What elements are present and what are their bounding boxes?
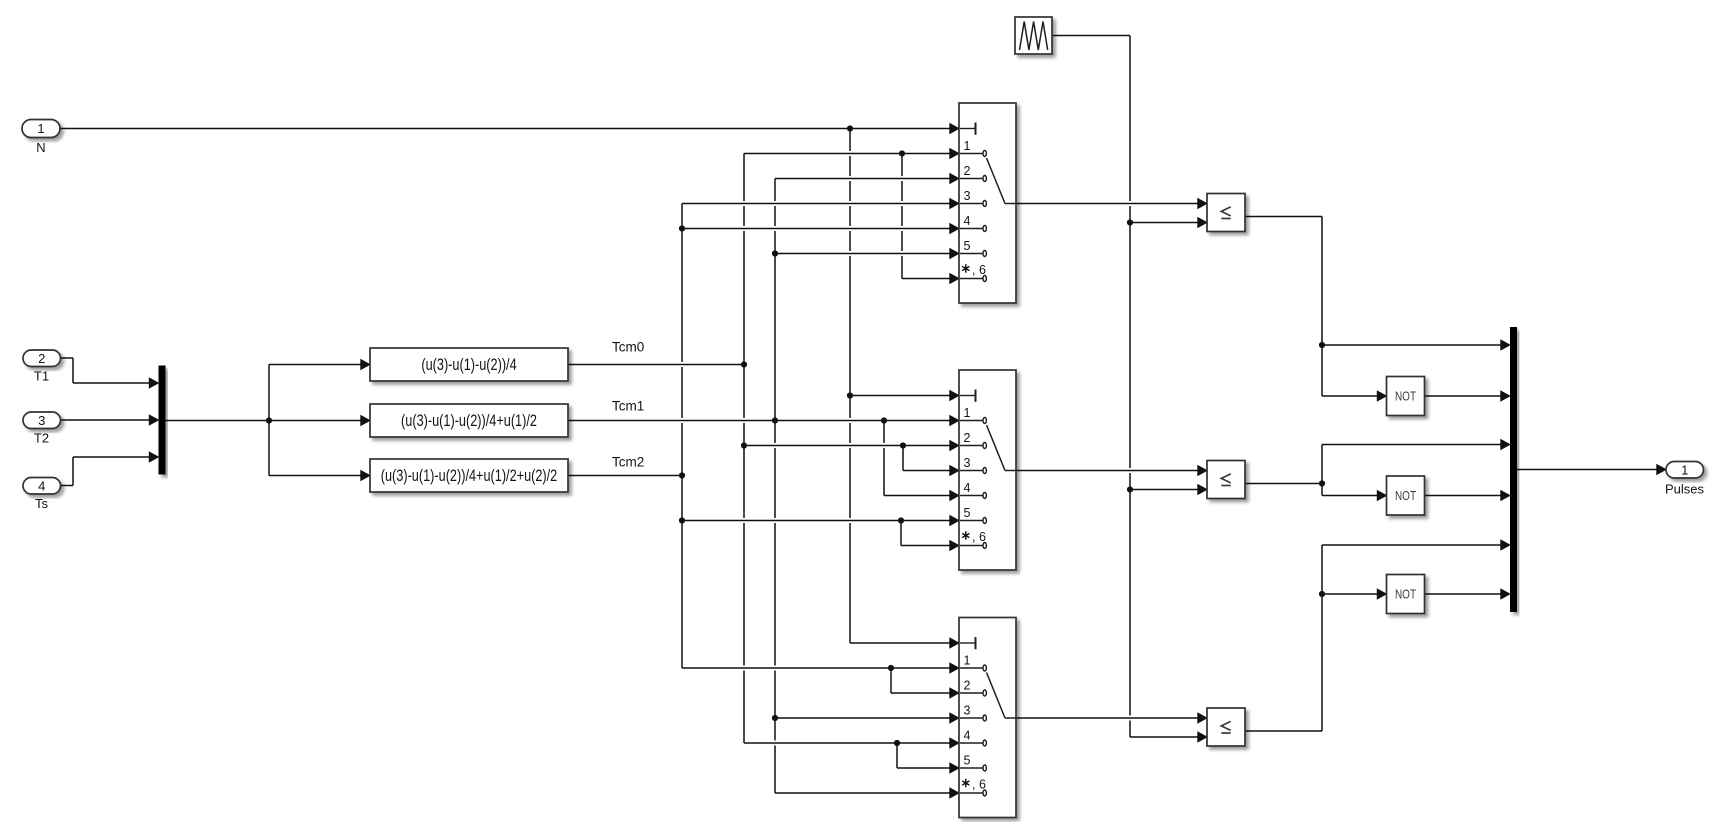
svg-text:2: 2 <box>38 351 45 366</box>
svg-text:NOT: NOT <box>1395 490 1416 503</box>
wire group2 to mux in3 <box>1322 439 1510 449</box>
svg-text:1: 1 <box>964 139 971 153</box>
wire LE3 output <box>1245 730 1322 732</box>
wire mux output to Fcn blocks <box>166 359 371 480</box>
wire Fcn1 output Tcm0 <box>568 364 744 366</box>
wire SW3 in6 <box>775 788 959 798</box>
svg-text:(u(3)-u(1)-u(2))/4: (u(3)-u(1)-u(2))/4 <box>421 357 516 375</box>
svg-text:, 6: , 6 <box>972 530 986 544</box>
svg-text:(u(3)-u(1)-u(2))/4+u(1)/2+u(2): (u(3)-u(1)-u(2))/4+u(1)/2+u(2)/2 <box>381 468 557 486</box>
wire vertical group3 x=1322 <box>1321 545 1323 731</box>
wire SW2 in4 <box>884 490 959 500</box>
wire NOT3 output to mux in6 <box>1425 589 1511 599</box>
wire vertical group1 x=1322 <box>1321 217 1323 397</box>
logical operator NOT3 <box>1387 575 1425 614</box>
wire branch SW3 in2 x=891 <box>890 668 892 693</box>
svg-text:4: 4 <box>38 478 45 493</box>
wire branch SW3 in5 x=897 <box>896 743 898 768</box>
wire NOT1 output to mux in2 <box>1425 391 1511 401</box>
wire branch SW2 in6 x=901 <box>900 521 902 546</box>
wire triangle branch to LE2 in2 <box>1130 484 1207 494</box>
wire N branch to SW2 control <box>850 390 959 400</box>
svg-text:N: N <box>36 140 45 155</box>
wire branch SW2 in4 x=884 <box>883 421 885 496</box>
wire LE2 output <box>1245 483 1322 485</box>
wire group2 to NOT2 <box>1322 490 1387 500</box>
wire branch SW2 in3 x=903 <box>902 446 904 471</box>
svg-text:2: 2 <box>964 679 971 693</box>
Fcn block Tcm0: (u(3)-u(1)-u(2))/4 <box>370 348 568 381</box>
label T1 <box>34 369 49 384</box>
wire vertical net Tcm0 x=744 <box>743 154 745 744</box>
wire triangle end to LE3 in2 <box>1130 732 1207 742</box>
wire vertical mux fan x=269 <box>268 365 270 476</box>
wire group1 to mux in1 <box>1322 340 1510 350</box>
inport 3 T2 <box>23 412 61 429</box>
multiport switch SW1 <box>959 103 1016 303</box>
Fcn block Tcm2: (u(3)-u(1)-u(2))/4+u(1)/2+u(2)/2 <box>370 459 568 492</box>
label Ts <box>35 496 49 511</box>
wire T2 to mux <box>60 415 159 425</box>
wire SW3 in2 <box>891 688 959 698</box>
wire vertical group2 x=1322 <box>1321 445 1323 496</box>
wire SW1 in4 <box>682 223 959 233</box>
multiport switch SW2 <box>959 370 1016 570</box>
wire group1 to NOT1 <box>1322 391 1387 401</box>
wire SW3 in3 <box>775 713 959 723</box>
svg-text:1: 1 <box>964 654 971 668</box>
svg-text:2: 2 <box>964 431 971 445</box>
svg-text:4: 4 <box>964 729 971 743</box>
svg-text:Tcm1: Tcm1 <box>612 399 644 414</box>
signal label Tcm2 <box>612 455 644 470</box>
wire SW2 in6 <box>901 540 959 550</box>
inport 4 Ts <box>23 478 61 495</box>
wire SW3 output to LE3 in1 <box>1016 713 1207 723</box>
logical operator NOT1 <box>1387 377 1425 416</box>
svg-text:3: 3 <box>38 413 45 428</box>
crossing gaps <box>681 151 1132 746</box>
wire SW1 in6 <box>902 273 959 283</box>
svg-text:3: 3 <box>964 704 971 718</box>
wire SW1 in2 <box>775 173 959 183</box>
mux Mux1 <box>159 366 166 475</box>
multiport switch SW3 <box>959 618 1016 818</box>
wire SW1 output to LE1 in1 <box>1016 198 1207 208</box>
wire N port to SW1 control <box>60 123 959 133</box>
svg-text:NOT: NOT <box>1395 391 1416 404</box>
wire elbow T1 x=73 <box>72 358 74 383</box>
svg-text:4: 4 <box>964 214 971 228</box>
wire Ts to mux <box>60 452 159 486</box>
wire group3 to mux in5 <box>1322 540 1510 550</box>
svg-text:1: 1 <box>964 406 971 420</box>
wire triangle branch to LE1 in2 <box>1130 217 1207 227</box>
wire SW2 in5 <box>682 515 959 525</box>
wire SW3 in1 <box>682 663 959 673</box>
svg-text:Tcm0: Tcm0 <box>612 340 644 355</box>
svg-text:5: 5 <box>964 754 971 768</box>
svg-text:5: 5 <box>964 506 971 520</box>
svg-text:(u(3)-u(1)-u(2))/4+u(1)/2: (u(3)-u(1)-u(2))/4+u(1)/2 <box>401 413 537 431</box>
svg-text:, 6: , 6 <box>972 778 986 792</box>
wire branch SW1 in6 x=902 <box>901 154 903 279</box>
wire SW1 in5 <box>775 248 959 258</box>
mux Mux2 <box>1510 327 1517 612</box>
relational operator LE3 (<=) <box>1207 708 1245 746</box>
repeating sequence block (triangle wave) <box>1015 17 1052 54</box>
outport 1 Pulses <box>1666 462 1704 479</box>
svg-text:Tcm2: Tcm2 <box>612 455 644 470</box>
wire SW2 output to LE2 in1 <box>1016 465 1207 475</box>
wire vertical carrier triangle x=1130 <box>1129 36 1131 738</box>
svg-text:T1: T1 <box>34 369 49 384</box>
svg-text:3: 3 <box>964 189 971 203</box>
svg-text:, 6: , 6 <box>972 263 986 277</box>
svg-text:NOT: NOT <box>1395 589 1416 602</box>
wire Fcn2 output Tcm1 to SW2 in1 <box>568 415 959 425</box>
wire SW2 in3 <box>903 465 959 475</box>
wire T1 to mux <box>60 358 159 388</box>
signal label Tcm0 <box>612 340 644 355</box>
wire SW1 in3 <box>682 198 959 208</box>
svg-text:2: 2 <box>964 164 971 178</box>
wire elbow Ts x=73 <box>72 457 74 486</box>
wire vertical net Tcm1 x=775 <box>774 179 776 794</box>
svg-text:3: 3 <box>964 456 971 470</box>
wire vertical net Tcm2 x=682 <box>681 204 683 669</box>
wire repeating sequence output <box>1052 35 1130 37</box>
wire SW1 in1 <box>744 148 959 158</box>
wire mux2 output to Pulses <box>1517 464 1666 474</box>
relational operator LE1 (<=) <box>1207 194 1245 232</box>
logical operator NOT2 <box>1387 476 1425 515</box>
svg-text:Pulses: Pulses <box>1665 482 1705 497</box>
label N <box>36 140 45 155</box>
inport 1 N <box>22 120 60 138</box>
svg-text:1: 1 <box>37 121 44 136</box>
signal label Tcm1 <box>612 399 644 414</box>
wire Fcn3 output Tcm2 <box>568 475 682 477</box>
wire group3 to NOT3 <box>1322 589 1387 599</box>
wire N branch to SW3 control <box>850 638 959 648</box>
svg-text:T2: T2 <box>34 431 49 446</box>
inport 2 T1 <box>23 350 61 367</box>
wire SW3 in5 <box>897 763 959 773</box>
svg-text:4: 4 <box>964 481 971 495</box>
wire NOT2 output to mux in4 <box>1425 490 1511 500</box>
svg-text:Ts: Ts <box>35 496 49 511</box>
label T2 <box>34 431 49 446</box>
wire SW2 in2 <box>744 440 959 450</box>
svg-text:5: 5 <box>964 239 971 253</box>
wire vertical net N x=850 <box>849 129 851 644</box>
wire SW3 in4 <box>744 738 959 748</box>
Fcn block Tcm1: (u(3)-u(1)-u(2))/4+u(1)/2 <box>370 404 568 437</box>
relational operator LE2 (<=) <box>1207 461 1245 499</box>
wire LE1 output elbow <box>1245 216 1322 218</box>
label Pulses <box>1665 482 1705 497</box>
svg-text:1: 1 <box>1681 462 1688 477</box>
